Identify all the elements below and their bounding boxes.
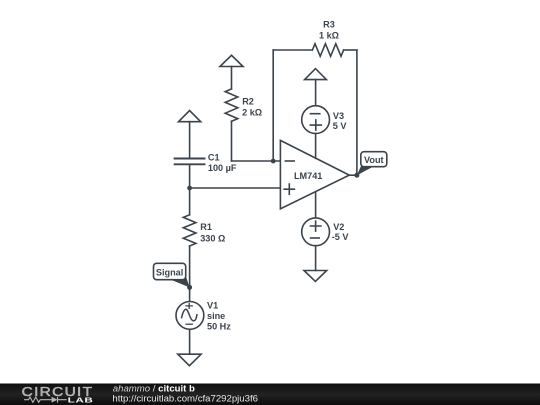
net flag Signal: [154, 263, 190, 287]
wire op-amp output: [349, 174, 357, 176]
wire V1 bottom lead: [189, 329, 191, 354]
node dot Signal: [187, 285, 192, 290]
wire V3 top lead: [315, 80, 317, 106]
svg-text:2 kΩ: 2 kΩ: [242, 108, 262, 118]
footer text "ahammo / citcuit b": [112, 384, 258, 405]
wire top-left horizontal (R3 left lead): [273, 49, 312, 51]
wire R2 top lead: [231, 67, 233, 89]
svg-text:1 kΩ: 1 kΩ: [319, 30, 339, 40]
wire R1 bottom lead to V1: [189, 246, 191, 302]
label R2 "R2 / 2 kΩ": [242, 96, 262, 117]
wire V2 bottom lead: [315, 246, 317, 271]
svg-text:5 V: 5 V: [333, 121, 348, 131]
node dot output Vout: [354, 173, 359, 178]
power VCC arrow above C1: [179, 111, 201, 122]
label V3 "V3 / 5 V": [333, 111, 348, 131]
resistor R3: [312, 44, 343, 57]
ground below V1: [178, 354, 201, 366]
svg-text:LM741: LM741: [294, 171, 322, 181]
logo schematic line (resistor + diode): [24, 397, 67, 403]
svg-text:C1: C1: [208, 153, 220, 163]
junction dot feedback/inverting input: [271, 159, 276, 164]
svg-text:V1: V1: [207, 300, 218, 310]
voltage source V3: [302, 106, 330, 134]
label R3 "R3 / 1 kΩ": [319, 19, 339, 40]
net flag Vout: [357, 152, 387, 176]
svg-text:R2: R2: [242, 96, 254, 106]
svg-text:V2: V2: [333, 222, 344, 232]
power VCC arrow above V3: [305, 69, 327, 80]
svg-text:100 µF: 100 µF: [208, 163, 237, 173]
wire inverting input horizontal: [232, 160, 281, 162]
label V1 "V1 / sine / 50 Hz": [207, 300, 231, 331]
wire feedback right vertical: [356, 50, 358, 175]
svg-text:-5 V: -5 V: [332, 232, 350, 242]
svg-text:V3: V3: [333, 111, 344, 121]
label op-amp "LM741": [294, 171, 322, 181]
svg-text:330 Ω: 330 Ω: [200, 233, 225, 243]
wire top-right horizontal (R3 right lead): [344, 49, 357, 51]
svg-text:50 Hz: 50 Hz: [207, 322, 231, 332]
voltage source V2: [302, 218, 330, 246]
svg-text:R3: R3: [323, 19, 335, 29]
svg-text:Vout: Vout: [364, 155, 384, 165]
wire non-inverting input horizontal: [190, 187, 281, 189]
wire feedback left vertical: [272, 50, 274, 161]
label R1 "R1 / 330 Ω": [200, 222, 225, 243]
label V2 "V2 / -5 V": [332, 222, 350, 242]
label C1 "C1 / 100 µF": [208, 153, 237, 174]
svg-text:sine: sine: [207, 311, 225, 321]
logo CIRCUIT LAB wordmark: [22, 385, 94, 405]
wire R1 top lead: [189, 188, 191, 215]
capacitor C1: [175, 159, 205, 165]
svg-text:LAB: LAB: [68, 396, 94, 405]
wire V3 bottom lead: [315, 134, 317, 159]
wire C1 top lead: [189, 122, 191, 159]
op-amp U1 LM741: [280, 140, 349, 209]
power VCC arrow above R2: [220, 55, 243, 66]
resistor R1: [183, 215, 196, 246]
ground below V2: [304, 271, 327, 282]
wire C1 bottom lead: [189, 164, 191, 188]
wire V2 top lead: [315, 192, 317, 218]
resistor R2: [225, 89, 238, 121]
svg-text:R1: R1: [200, 222, 212, 232]
svg-text:Signal: Signal: [156, 267, 183, 277]
svg-text:http://circuitlab.com/cfa7292p: http://circuitlab.com/cfa7292pju3f6: [112, 393, 258, 404]
wire R2 bottom lead: [231, 121, 233, 161]
voltage source V1 (sine): [176, 302, 204, 330]
junction dot C1/R1/plus-input: [187, 186, 192, 191]
